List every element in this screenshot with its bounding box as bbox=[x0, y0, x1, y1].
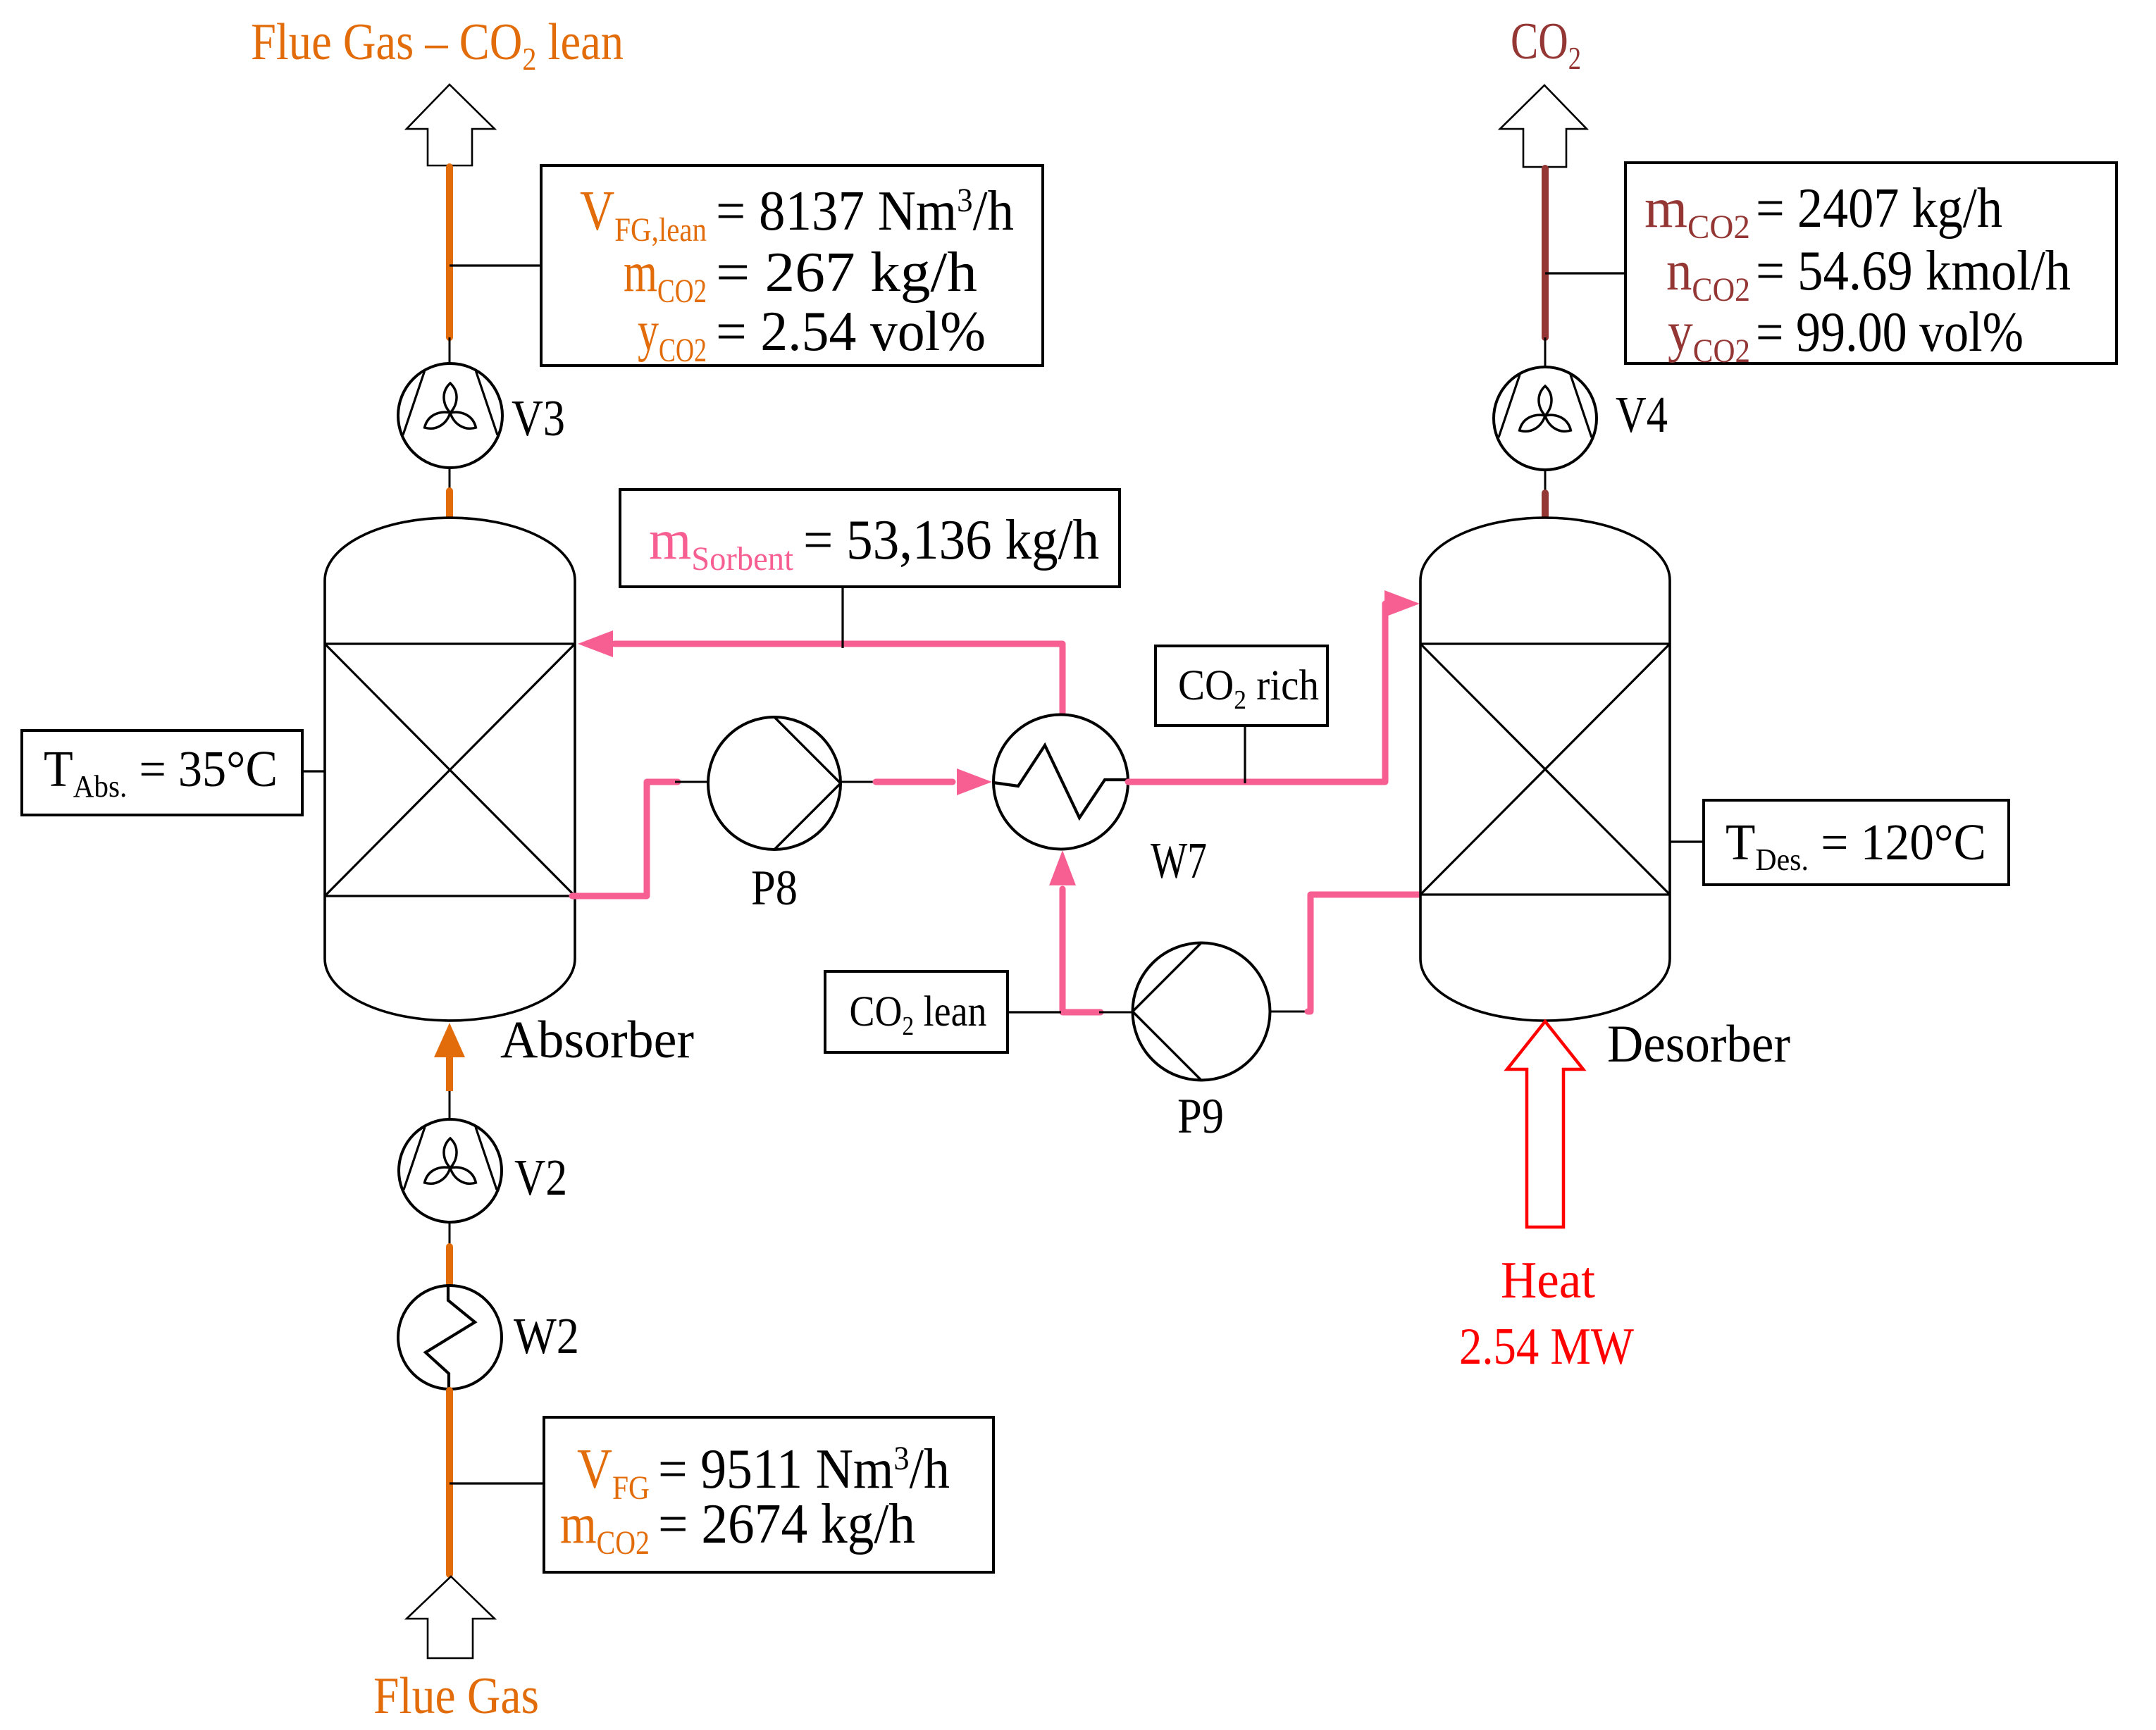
wire: pink lean sorbent desorber-bottom to P9 bbox=[1308, 895, 1423, 1012]
wire: black stub into P9 bbox=[1099, 1012, 1134, 1014]
heat arrow (red outline) into desorber bottom bbox=[1507, 1021, 1583, 1227]
svg-text:P8: P8 bbox=[751, 861, 798, 916]
data box: sorbent mass flow bbox=[620, 490, 1120, 587]
wire: black stub into V2 top bbox=[449, 1091, 451, 1121]
pump P9 bbox=[1133, 943, 1270, 1081]
wire: black stub out of P8 bbox=[841, 781, 877, 783]
data box: CO2 product values bbox=[1625, 163, 2117, 363]
wire: orange flue gas feed line bbox=[446, 1390, 453, 1574]
data box: lean flue gas values bbox=[541, 166, 1043, 366]
heat exchanger W2 bbox=[398, 1286, 502, 1389]
wire: orange stub into W2 bbox=[446, 1247, 453, 1289]
svg-text:CO2 lean: CO2 lean bbox=[850, 988, 987, 1041]
svg-text:= 2407 kg/h: = 2407 kg/h bbox=[1756, 178, 2002, 239]
svg-text:V2: V2 bbox=[514, 1149, 567, 1206]
svg-text:2.54 MW: 2.54 MW bbox=[1459, 1318, 1634, 1376]
svg-text:Desorber: Desorber bbox=[1607, 1015, 1790, 1074]
column: Desorber vessel bbox=[1420, 518, 1670, 1021]
wire: black connector CO2-lean box to pink junction bbox=[1008, 1011, 1061, 1013]
outflow arrow (CO2, outline) bbox=[1500, 85, 1587, 167]
svg-text:W2: W2 bbox=[514, 1307, 579, 1364]
fan V2 bbox=[399, 1119, 502, 1222]
data box: T desorber bbox=[1704, 800, 2009, 885]
wire: black stub below V4 bbox=[1544, 470, 1547, 493]
svg-text:= 99.00 vol%: = 99.00 vol% bbox=[1756, 301, 2024, 363]
svg-text:Absorber: Absorber bbox=[500, 1011, 694, 1069]
wire: connector T-abs box to absorber bbox=[302, 770, 326, 772]
packing section of desorber bbox=[1420, 642, 1670, 645]
data box: CO2 lean bbox=[825, 971, 1008, 1052]
wire: orange stub into absorber top bbox=[446, 491, 453, 516]
svg-text:W7: W7 bbox=[1151, 832, 1207, 889]
svg-text:= 54.69 kmol/h: = 54.69 kmol/h bbox=[1756, 240, 2071, 302]
data box: T absorber bbox=[22, 730, 302, 815]
fan V3 bbox=[398, 363, 502, 468]
wire: pink lean sorbent return W7-top to absorber-top (arrow into absorber) bbox=[614, 644, 1062, 716]
outflow arrow (flue gas lean, outline) bbox=[407, 85, 495, 166]
wire: black stub into V4 top bbox=[1544, 337, 1547, 368]
column: Absorber vessel bbox=[325, 518, 575, 1021]
wire: pink rich sorbent W7 to desorber top (arrow into desorber) bbox=[1128, 604, 1389, 782]
inflow arrow (flue gas, outline) bbox=[407, 1576, 495, 1658]
data box: CO2 rich bbox=[1156, 646, 1327, 726]
wire: orange flue-gas-lean line above V3 bbox=[446, 167, 453, 337]
svg-text:V4: V4 bbox=[1616, 386, 1668, 443]
wire: connector desorber to T-des box bbox=[1670, 840, 1704, 842]
svg-text:P9: P9 bbox=[1177, 1089, 1224, 1144]
wire: black connector to flue-gas data box bbox=[450, 1482, 545, 1484]
wire: orange arrow into absorber bottom bbox=[434, 1023, 465, 1057]
wire: black stub into P8 bbox=[675, 781, 709, 783]
wire: black connector to CO2 data box bbox=[1545, 272, 1626, 274]
wire: black stub into V3 top bbox=[449, 337, 451, 364]
svg-text:Flue Gas: Flue Gas bbox=[373, 1667, 539, 1725]
wire: pink line P8 to W7 (arrow into W7) bbox=[876, 779, 953, 785]
wire: black stub below V3 bbox=[449, 468, 451, 491]
wire: black stub out of P9 right bbox=[1270, 1011, 1309, 1013]
data box: flue gas feed values bbox=[544, 1417, 993, 1572]
pump P8 bbox=[708, 717, 841, 850]
svg-text:= 2674 kg/h: = 2674 kg/h bbox=[658, 1493, 915, 1555]
svg-text:= 2.54 vol%: = 2.54 vol% bbox=[716, 301, 986, 363]
wire: maroon stub into desorber top bbox=[1542, 493, 1549, 516]
svg-text:= 267 kg/h: = 267 kg/h bbox=[716, 242, 977, 304]
wire: maroon CO2 product line above V4 bbox=[1542, 168, 1549, 337]
packing section of absorber bbox=[325, 642, 575, 645]
svg-text:Flue Gas – CO2 lean: Flue Gas – CO2 lean bbox=[251, 13, 624, 77]
wire: black stub below V2 bbox=[449, 1222, 451, 1247]
heat exchanger W7 bbox=[993, 715, 1128, 850]
wire: pink line P9 outlet up into W7 bottom (arrow into W7) bbox=[1062, 889, 1101, 1012]
svg-text:CO2 rich: CO2 rich bbox=[1178, 662, 1319, 715]
svg-text:= 53,136 kg/h: = 53,136 kg/h bbox=[803, 509, 1099, 571]
wire: pink rich sorbent absorber-bottom to P8 bbox=[572, 782, 678, 896]
svg-text:V3: V3 bbox=[512, 390, 565, 447]
wire: black connector CO2-rich box to pink line bbox=[1244, 726, 1246, 783]
svg-text:Heat: Heat bbox=[1501, 1252, 1595, 1309]
wire: black connector sorbent box to pink line bbox=[841, 587, 843, 648]
wire: black connector to lean-gas data box bbox=[450, 264, 541, 266]
fan V4 bbox=[1494, 367, 1597, 470]
